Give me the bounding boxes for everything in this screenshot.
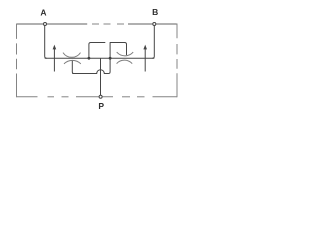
pilot link lower (left poppet to B-side rail, hop over P line) [72,58,110,73]
enclosure left edge [16,24,18,98]
junction dot A-side [88,57,91,60]
wire A vertical (port A down to rail) [45,24,47,58]
svg-text:A: A [40,8,46,18]
wire P vertical (rail center down to port P) [100,58,102,97]
check valve left: pilot stem [72,61,74,74]
check valve left: seat arc [63,53,81,58]
flow arrow left [53,45,57,72]
pilot bridge right (from B-side junction over to right valve) [110,43,127,59]
check valve right: seat arc [117,52,134,56]
port node B [153,23,156,26]
wire rail A-B [45,57,155,59]
port node A [44,23,47,26]
check valve left: poppet arc [64,60,81,64]
svg-text:B: B [152,7,158,17]
enclosure bottom edge [17,96,178,98]
wire B vertical (port B down to rail) [152,24,154,58]
junction dot B-side [109,57,112,60]
svg-text:P: P [98,101,104,111]
port node P [99,95,102,98]
check valve right: poppet arc [117,60,133,63]
enclosure top edge (dashed body boundary with port lines) [17,23,178,25]
flow arrow right [143,45,147,72]
pilot bridge left (from A-side junction) [89,43,105,59]
enclosure right edge [176,24,178,98]
